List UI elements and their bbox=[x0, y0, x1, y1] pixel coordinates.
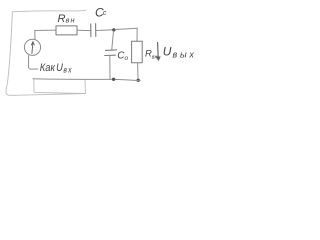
wire source top to corner bbox=[34, 31, 36, 40]
svg-text:Cс: Cс bbox=[95, 5, 107, 19]
resistor Rвн box bbox=[56, 26, 77, 35]
svg-text:Uвых: Uвых bbox=[163, 44, 196, 59]
frame tick below node bbox=[34, 79, 86, 93]
capacitor Cс plate 2 bbox=[95, 24, 97, 37]
wire source bottom with corner bbox=[29, 56, 38, 70]
label Как Uвх bbox=[40, 63, 73, 75]
frame top edge bbox=[12, 10, 86, 12]
capacitor C0 bottom plate bbox=[105, 54, 116, 56]
capacitor Cс plate 1 bbox=[90, 24, 92, 37]
bottom wire bbox=[33, 79, 140, 81]
wire Rвх bottom to node B bbox=[137, 63, 139, 80]
arrow Uвых bbox=[157, 43, 160, 58]
frame lower right vertical bbox=[84, 80, 86, 94]
wire resistor to capacitor bbox=[77, 29, 90, 31]
wire right corner down to Rвх bbox=[136, 28, 138, 41]
source G1 circle bbox=[24, 39, 40, 55]
resistor Rвх box bbox=[132, 41, 143, 63]
svg-text:КакUвх: КакUвх bbox=[40, 63, 73, 75]
capacitor C0 top plate bbox=[106, 49, 117, 52]
svg-text:Rвн: Rвн bbox=[58, 13, 76, 25]
frame left edge and bottom edge bbox=[6, 12, 86, 96]
node A junction dot bbox=[112, 28, 115, 31]
wire corner to resistor bbox=[35, 29, 56, 31]
node C junction dot bbox=[112, 78, 115, 81]
svg-text:Rвх: Rвх bbox=[145, 49, 157, 61]
wire capacitor to node A bbox=[96, 29, 112, 32]
wire node A down to C0 bbox=[112, 31, 114, 49]
source G1 arrow bbox=[32, 42, 33, 53]
node B junction dot bbox=[137, 79, 140, 82]
wire node A to right corner bbox=[116, 28, 138, 29]
wire C0 bottom to bottom wire bbox=[109, 56, 111, 79]
svg-text:Cо: Cо bbox=[117, 50, 128, 62]
